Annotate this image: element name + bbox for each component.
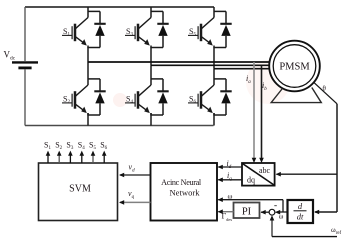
wire: theta branch into abc/dq right bbox=[277, 173, 338, 175]
svg-text:S6: S6 bbox=[189, 95, 196, 106]
svg-text:SVM: SVM bbox=[69, 184, 91, 195]
svg-text:ωref: ωref bbox=[331, 226, 341, 236]
battery Vdc long plate bbox=[12, 61, 38, 63]
wire: leg1 lower emitter to bottom rail bbox=[87, 113, 89, 126]
block neural network bbox=[151, 163, 218, 221]
svg-text:S1: S1 bbox=[63, 27, 70, 38]
svg-text:PMSM: PMSM bbox=[279, 62, 310, 73]
arrowhead iq into NN bbox=[218, 178, 223, 183]
svg-text:id: id bbox=[227, 159, 232, 170]
wire: phase C line to motor bbox=[214, 68, 269, 70]
svg-text:vq: vq bbox=[128, 189, 135, 200]
wire: d/dt output to junction bbox=[277, 211, 288, 213]
gate signal arrow S2 bbox=[58, 155, 60, 163]
wire: leg1 upper emitter to phase A bbox=[87, 48, 89, 63]
wire: leg3 phase node to S6 collector bbox=[213, 69, 215, 75]
wire: omega ref vertical into junction bbox=[271, 220, 273, 237]
wire: theta sensor diagonal from motor bbox=[314, 82, 337, 104]
arrowhead into PI bbox=[261, 210, 266, 215]
wire: current tap ib (phase B down to abc/dq) bbox=[261, 65, 263, 158]
wire: vq from NN to SVM bbox=[120, 201, 151, 203]
svg-text:dq: dq bbox=[247, 176, 255, 185]
svg-text:S6: S6 bbox=[100, 141, 107, 152]
motor PMSM inner circle bbox=[273, 45, 316, 88]
wire: iq output of abc/dq into NN bbox=[218, 179, 242, 181]
transistor S4 (IGBT + diode, bottom leg 2) bbox=[125, 75, 169, 116]
svg-text:Γdes: Γdes bbox=[222, 212, 233, 223]
svg-text:S2: S2 bbox=[63, 95, 70, 106]
arrowhead theta into d/dt bbox=[314, 210, 319, 215]
arrowhead torque into NN bbox=[218, 209, 223, 214]
wire: theta into d/dt bbox=[315, 211, 337, 213]
transistor S2 (IGBT + diode, bottom leg 1) bbox=[62, 75, 106, 116]
svg-text:Acinc Neural: Acinc Neural bbox=[161, 178, 202, 187]
arrowhead theta into abc/dq bbox=[276, 172, 281, 177]
wire: omega feedback into NN bbox=[218, 199, 283, 201]
wire: id output of abc/dq into NN bbox=[218, 166, 242, 168]
svg-text:dt: dt bbox=[297, 212, 304, 222]
gate signal arrow S5 bbox=[92, 155, 94, 163]
wire: phase B line to motor bbox=[151, 64, 269, 66]
svg-text:θ: θ bbox=[323, 85, 327, 93]
arrowhead id into NN bbox=[218, 165, 223, 170]
gate signal arrow S1 bbox=[47, 155, 49, 163]
faint scan blotch near motor bbox=[246, 60, 290, 104]
arrowhead into junction bbox=[275, 210, 280, 215]
arrowhead ib into abc/dq bbox=[259, 158, 264, 163]
svg-text:abc: abc bbox=[259, 166, 271, 175]
wire: junction output to PI bbox=[261, 211, 269, 213]
block d/dt bbox=[288, 200, 314, 223]
block SVM bbox=[39, 163, 118, 221]
arrowhead omega into NN bbox=[218, 197, 223, 202]
wire: omega ref horizontal bbox=[272, 236, 337, 238]
abc/dq diagonal bbox=[243, 164, 274, 185]
summing junction circle bbox=[269, 209, 275, 215]
svg-text:vd: vd bbox=[129, 163, 136, 174]
svg-text:PI: PI bbox=[242, 207, 252, 218]
arrowhead vq into SVM bbox=[119, 200, 124, 205]
block PI controller bbox=[234, 203, 260, 219]
wire: theta vertical feedback bbox=[336, 104, 338, 212]
svg-text:S4: S4 bbox=[126, 95, 133, 106]
wire: left rail lower bbox=[24, 69, 26, 125]
wire: phase A line to motor bbox=[88, 61, 269, 63]
wire: PI output torque command to NN bbox=[218, 211, 233, 213]
svg-text:S1: S1 bbox=[44, 141, 51, 152]
wire: current tap ia (phase A down to abc/dq) bbox=[253, 62, 255, 158]
transistor S5 (IGBT + diode, top leg 3) bbox=[188, 7, 232, 48]
wire: left rail upper bbox=[24, 7, 26, 61]
motor stand bbox=[271, 88, 321, 103]
wire: omega branch vertical bbox=[282, 200, 284, 212]
gate signal arrow S4 bbox=[81, 155, 83, 163]
svg-text:ω: ω bbox=[228, 191, 233, 200]
minus sign at summing junction bbox=[274, 205, 277, 207]
wire: DC bus top rail bbox=[25, 6, 214, 8]
wire: vd from NN to SVM bbox=[120, 174, 151, 176]
wire: leg1 phase node to S2 collector bbox=[87, 62, 89, 75]
svg-text:S2: S2 bbox=[55, 141, 62, 152]
faint scan blotch near SVM/NN bbox=[113, 93, 127, 107]
block abc/dq transform bbox=[242, 163, 275, 186]
arrowhead vd into SVM bbox=[119, 173, 124, 178]
svg-text:S5: S5 bbox=[89, 141, 96, 152]
arrowhead ia into abc/dq bbox=[252, 158, 257, 163]
transistor S6 (IGBT + diode, bottom leg 3) bbox=[188, 75, 232, 116]
wire: leg2 upper emitter to phase B bbox=[150, 48, 152, 66]
transistor S1 (IGBT + diode, top leg 1) bbox=[62, 7, 106, 48]
wire: leg2 lower emitter to bottom rail bbox=[150, 113, 152, 126]
wire: leg3 lower emitter to bottom rail bbox=[213, 113, 215, 126]
gate signal arrow S6 bbox=[103, 155, 105, 163]
transistor S3 (IGBT + diode, top leg 2) bbox=[125, 7, 169, 48]
svg-text:S3: S3 bbox=[66, 141, 73, 152]
svg-text:S5: S5 bbox=[189, 27, 196, 38]
battery Vdc short plate bbox=[18, 67, 31, 70]
svg-text:Vdc: Vdc bbox=[4, 50, 16, 62]
wire: DC bus bottom rail bbox=[25, 125, 214, 127]
gate signal arrow S3 bbox=[69, 155, 71, 163]
arrowhead omega ref into junction bbox=[270, 215, 275, 220]
motor PMSM outer circle bbox=[269, 41, 320, 92]
fraction bar of d/dt bbox=[294, 210, 307, 212]
svg-text:S3: S3 bbox=[126, 27, 133, 38]
svg-text:S4: S4 bbox=[78, 141, 85, 152]
wire: leg3 upper emitter to phase C bbox=[213, 48, 215, 69]
wire: leg2 phase node to S4 collector bbox=[150, 65, 152, 74]
svg-text:Network: Network bbox=[169, 187, 200, 197]
